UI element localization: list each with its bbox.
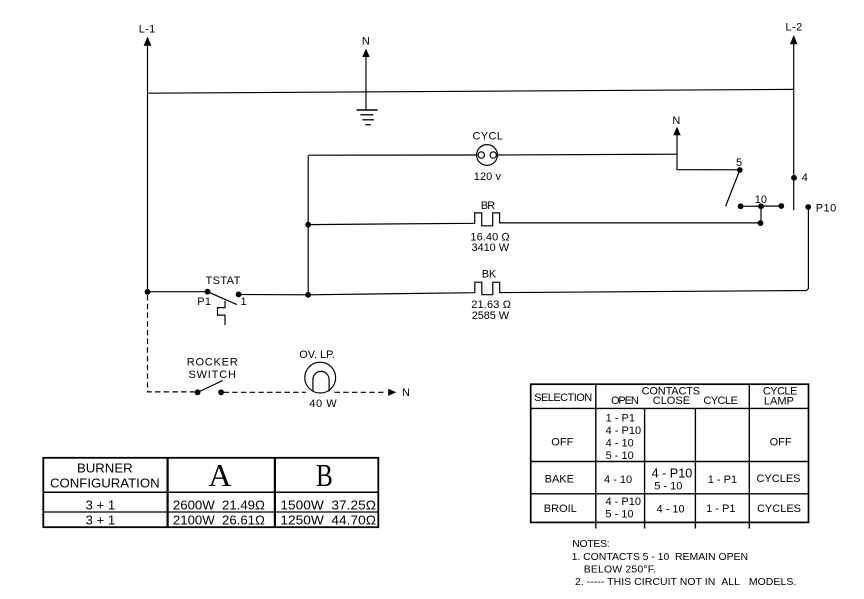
svg-text:A: A: [208, 457, 231, 493]
svg-text:5: 5: [736, 157, 742, 169]
svg-text:4 - 10: 4 - 10: [657, 503, 685, 515]
svg-text:BAKE: BAKE: [545, 473, 574, 485]
svg-text:40 W: 40 W: [309, 398, 337, 410]
svg-text:120 v: 120 v: [474, 171, 502, 183]
svg-text:BROIL: BROIL: [544, 503, 577, 515]
svg-text:NOTES:: NOTES:: [572, 538, 610, 550]
svg-text:BURNER: BURNER: [77, 461, 133, 476]
svg-text:OPEN: OPEN: [611, 395, 639, 407]
svg-text:CYCLES: CYCLES: [756, 473, 800, 485]
svg-text:CYCL: CYCL: [473, 131, 503, 143]
svg-text:1: 1: [240, 296, 246, 308]
svg-text:BELOW 250°F.: BELOW 250°F.: [584, 564, 656, 576]
svg-text:10: 10: [755, 194, 767, 206]
svg-text:CYCLES: CYCLES: [757, 503, 801, 515]
svg-text:N: N: [672, 115, 680, 127]
svg-text:1500W 37.25Ω: 1500W 37.25Ω: [280, 498, 376, 513]
svg-text:2. ----- THIS CIRCUIT NOT IN: 2. ----- THIS CIRCUIT NOT IN ALL MODELS.: [575, 576, 796, 588]
svg-text:CYCLE: CYCLE: [703, 395, 738, 407]
svg-text:OV. LP.: OV. LP.: [299, 349, 335, 361]
svg-text:SWITCH: SWITCH: [188, 369, 236, 381]
svg-text:ROCKER: ROCKER: [187, 356, 238, 368]
svg-text:3 + 1: 3 + 1: [86, 498, 116, 513]
svg-text:4 - 10: 4 - 10: [606, 437, 634, 449]
svg-text:CONFIGURATION: CONFIGURATION: [50, 476, 160, 491]
svg-text:5 - 10: 5 - 10: [605, 508, 633, 520]
svg-text:BK: BK: [482, 269, 497, 281]
svg-text:4 - P10: 4 - P10: [606, 496, 641, 508]
svg-text:OFF: OFF: [770, 437, 792, 449]
svg-text:L-2: L-2: [785, 22, 802, 34]
svg-text:4 - P10: 4 - P10: [606, 425, 641, 437]
svg-text:5 - 10: 5 - 10: [606, 450, 634, 462]
svg-text:1. CONTACTS 5 - 10 REMAIN OPE: 1. CONTACTS 5 - 10 REMAIN OPEN: [572, 551, 749, 563]
svg-text:CLOSE: CLOSE: [653, 395, 690, 407]
svg-text:1250W 44.70Ω: 1250W 44.70Ω: [280, 512, 376, 527]
svg-text:2100W 26.61Ω: 2100W 26.61Ω: [173, 512, 265, 527]
svg-text:2600W 21.49Ω: 2600W 21.49Ω: [173, 498, 265, 513]
svg-text:4 - P10: 4 - P10: [652, 466, 693, 480]
svg-text:P1: P1: [197, 296, 211, 308]
svg-text:2585 W: 2585 W: [472, 310, 510, 322]
svg-text:1 - P1: 1 - P1: [706, 503, 735, 515]
svg-text:P10: P10: [816, 203, 836, 215]
svg-text:N: N: [402, 387, 410, 399]
svg-text:OFF: OFF: [551, 436, 573, 448]
svg-text:4 - 10: 4 - 10: [604, 474, 632, 486]
svg-text:LAMP: LAMP: [764, 395, 794, 407]
svg-text:3 + 1: 3 + 1: [86, 512, 116, 527]
svg-text:5 - 10: 5 - 10: [654, 481, 682, 493]
svg-text:B: B: [316, 458, 333, 494]
svg-text:N: N: [362, 36, 370, 48]
svg-text:4: 4: [802, 172, 808, 184]
svg-text:TSTAT: TSTAT: [205, 275, 240, 287]
svg-text:1 - P1: 1 - P1: [606, 412, 635, 424]
svg-text:L-1: L-1: [139, 24, 155, 36]
svg-text:1 - P1: 1 - P1: [708, 474, 737, 486]
svg-text:BR: BR: [481, 200, 496, 212]
svg-text:3410 W: 3410 W: [472, 242, 510, 254]
svg-text:SELECTION: SELECTION: [534, 392, 592, 404]
